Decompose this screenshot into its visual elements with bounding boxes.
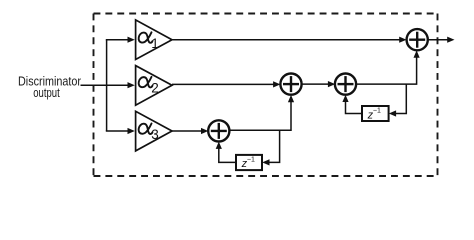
gain block alpha2 [136, 66, 172, 106]
wire: A4 output arrow leaving the dashed box [428, 37, 455, 43]
wire: alpha1 output to top adder [172, 37, 407, 43]
wire: vertical splitter node [106, 40, 108, 131]
svg-text:−1: −1 [247, 156, 255, 163]
svg-text:output: output [33, 85, 60, 100]
dashed loop-filter boundary box [94, 14, 438, 177]
svg-text:3: 3 [151, 127, 159, 142]
wire: z1 output left then up into A1 [216, 142, 236, 163]
wire: alpha2 output to middle adder A2 [172, 81, 280, 87]
svg-text:−1: −1 [373, 108, 381, 115]
wire: z2 output left then up into A3 [342, 95, 362, 114]
wire: A2 output to A3 [301, 81, 335, 87]
wire: A1 feedback tap down into delay z1 [262, 130, 279, 165]
svg-text:1: 1 [151, 36, 159, 51]
wire: A3 output right then up into top adder A4 [356, 50, 420, 84]
wire: A1 output right then up into A2 [229, 95, 294, 130]
gain block alpha3 [136, 111, 172, 151]
wire: A3 feedback tap down into delay z2 [389, 84, 407, 117]
wire: input from discriminator output to alpha2 [81, 82, 135, 88]
wire: alpha3 output to bottom adder A1 [172, 128, 208, 134]
adder A1 (bottom accumulator) [208, 120, 229, 141]
delay block z2 [362, 106, 389, 121]
delay block z1 [236, 155, 262, 170]
gain block alpha1 [136, 20, 172, 60]
svg-text:2: 2 [151, 81, 159, 96]
adder A4 (top output adder) [407, 29, 428, 50]
label: Discriminator output [18, 74, 82, 100]
adder A3 (middle row, right accumulator) [335, 74, 356, 95]
wire: branch to alpha3 [106, 128, 135, 134]
adder A2 (middle row, left) [280, 74, 301, 95]
wire: branch to alpha1 [106, 37, 135, 43]
